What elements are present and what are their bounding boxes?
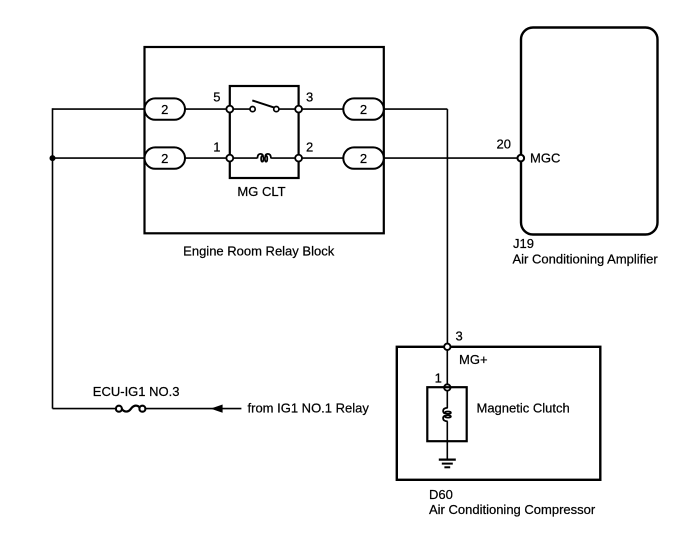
svg-text:MG CLT: MG CLT [237,184,285,199]
svg-text:20: 20 [497,137,511,152]
svg-text:MGC: MGC [530,151,560,166]
svg-text:2: 2 [360,151,367,166]
svg-text:3: 3 [306,89,313,104]
svg-text:1: 1 [213,139,220,154]
svg-text:1: 1 [435,370,442,385]
svg-text:5: 5 [213,89,220,104]
svg-text:2: 2 [360,102,367,117]
svg-text:2: 2 [161,102,168,117]
svg-text:Magnetic Clutch: Magnetic Clutch [477,401,570,416]
svg-text:Air Conditioning Compressor: Air Conditioning Compressor [429,502,596,517]
svg-text:J19: J19 [513,236,534,251]
svg-text:ECU-IG1 NO.3: ECU-IG1 NO.3 [93,384,180,399]
svg-text:from IG1 NO.1 Relay: from IG1 NO.1 Relay [248,401,370,416]
svg-text:2: 2 [161,151,168,166]
svg-text:3: 3 [456,329,463,344]
svg-text:D60: D60 [429,487,453,502]
svg-text:Air Conditioning Amplifier: Air Conditioning Amplifier [513,252,659,267]
svg-text:2: 2 [306,139,313,154]
svg-text:Engine Room Relay Block: Engine Room Relay Block [183,243,335,258]
svg-text:MG+: MG+ [459,352,488,367]
